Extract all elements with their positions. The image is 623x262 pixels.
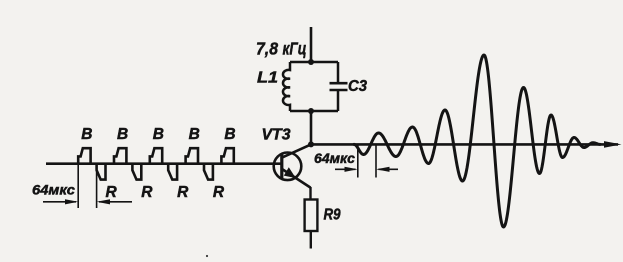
wire: input baseline to VT3 base xyxy=(46,162,282,165)
pulse R3 xyxy=(168,164,177,180)
svg-text:кГц: кГц xyxy=(283,39,307,59)
measure 64mks left: left-pointing arrow xyxy=(99,201,132,203)
svg-text:VT3: VT3 xyxy=(262,127,291,144)
measure 64mks right: right-pointing arrow xyxy=(335,168,356,170)
wire: R9 down lead xyxy=(310,231,312,249)
pulse R2 xyxy=(132,164,141,180)
LC tank: bottom wire xyxy=(290,110,338,113)
wire: emitter to R9 xyxy=(309,187,311,200)
LC tank: top wire xyxy=(290,61,338,64)
pulse B4 xyxy=(186,148,198,164)
svg-text:B: B xyxy=(117,126,128,143)
svg-text:C3: C3 xyxy=(348,78,367,95)
svg-text:B: B xyxy=(153,126,164,143)
resistor R9 xyxy=(305,200,318,232)
svg-text:B: B xyxy=(81,126,92,143)
measure 64mks left: tick 1 xyxy=(77,164,79,208)
output axis arrowhead xyxy=(604,141,622,148)
svg-text:7,8: 7,8 xyxy=(256,39,278,59)
pulse R1 xyxy=(97,164,106,180)
pulse B5 xyxy=(221,148,233,164)
waveform: output 7.8 kHz ringing burst xyxy=(354,55,600,227)
svg-text:R9: R9 xyxy=(324,207,341,224)
wire: 7.8 kHz feed from top xyxy=(310,27,313,62)
pulse R4 xyxy=(204,164,213,180)
svg-text:B: B xyxy=(224,126,235,143)
capacitor C3 xyxy=(337,62,340,83)
measure 64mks left: right-pointing arrow xyxy=(43,201,76,203)
emitter arrow xyxy=(284,167,296,178)
transistor VT3 xyxy=(274,153,302,181)
measure 64mks right: left-pointing arrow xyxy=(379,168,399,170)
measure 64mks left: tick 2 xyxy=(96,165,98,208)
pulse B2 xyxy=(114,148,126,164)
svg-text:R: R xyxy=(105,184,117,201)
inductor L1 xyxy=(283,62,290,111)
svg-text:B: B xyxy=(189,126,200,143)
measure 64mks right: tick 1 xyxy=(357,144,359,177)
node: collector/output junction xyxy=(308,141,314,147)
svg-text:64мкс: 64мкс xyxy=(314,150,355,166)
svg-text:R: R xyxy=(213,184,225,201)
svg-text:64мкс: 64мкс xyxy=(32,181,75,197)
node: tank bottom junction xyxy=(308,108,314,114)
node: tank top junction xyxy=(308,59,314,65)
svg-text:R: R xyxy=(177,184,189,201)
wire: tank bottom to collector node xyxy=(310,111,313,144)
wire: output axis xyxy=(311,143,618,146)
pulse B1 xyxy=(78,148,90,164)
svg-text:L1: L1 xyxy=(257,70,278,87)
paper speck xyxy=(206,255,208,257)
measure 64mks right: tick 2 xyxy=(375,144,377,177)
svg-text:R: R xyxy=(141,184,153,201)
pulse B3 xyxy=(150,148,162,164)
